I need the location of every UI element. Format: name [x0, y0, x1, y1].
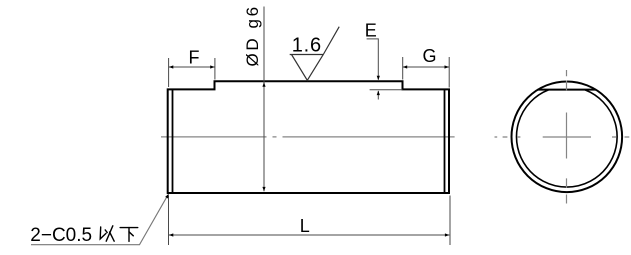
svg-text:E: E — [365, 20, 377, 40]
dimension OD arrows — [262, 82, 265, 191]
end view flat chord — [538, 89, 597, 91]
end view chamfer circle arc — [516, 90, 617, 187]
shaft body outline — [168, 81, 449, 193]
svg-text:1.6: 1.6 — [292, 35, 322, 57]
svg-text:ØD g6: ØD g6 — [243, 4, 262, 66]
svg-text:F: F — [189, 48, 200, 68]
end view horizontal centerline — [495, 136, 630, 138]
dimension L extension lines — [169, 196, 451, 246]
chamfer leader arrow — [165, 194, 169, 199]
svg-text:2−C0.5: 2−C0.5 — [30, 225, 92, 246]
dimension G extension lines — [403, 57, 450, 88]
kanji I(yi) of ika — [100, 226, 114, 241]
dimension F arrows — [169, 65, 215, 68]
dimension L line — [169, 234, 450, 236]
surface roughness symbol — [290, 27, 340, 81]
dimension E leader — [367, 39, 403, 100]
right chamfer line — [444, 89, 446, 193]
svg-text:L: L — [300, 216, 310, 236]
dimension G arrows — [403, 65, 449, 68]
dimension F line — [169, 66, 215, 68]
dimension L arrows — [169, 233, 450, 236]
left chamfer line — [172, 89, 174, 193]
dimension G line — [403, 66, 449, 68]
dimension F extension lines — [169, 58, 215, 87]
dimension E arrows — [377, 76, 380, 95]
end view outer circle — [512, 82, 623, 193]
dimension OD line — [263, 7, 265, 192]
end view vertical centerline — [566, 70, 568, 204]
centerline side view — [161, 136, 455, 138]
chamfer note leader — [31, 195, 168, 245]
kanji shita(ka) of ika — [120, 228, 138, 242]
svg-text:G: G — [422, 46, 436, 66]
